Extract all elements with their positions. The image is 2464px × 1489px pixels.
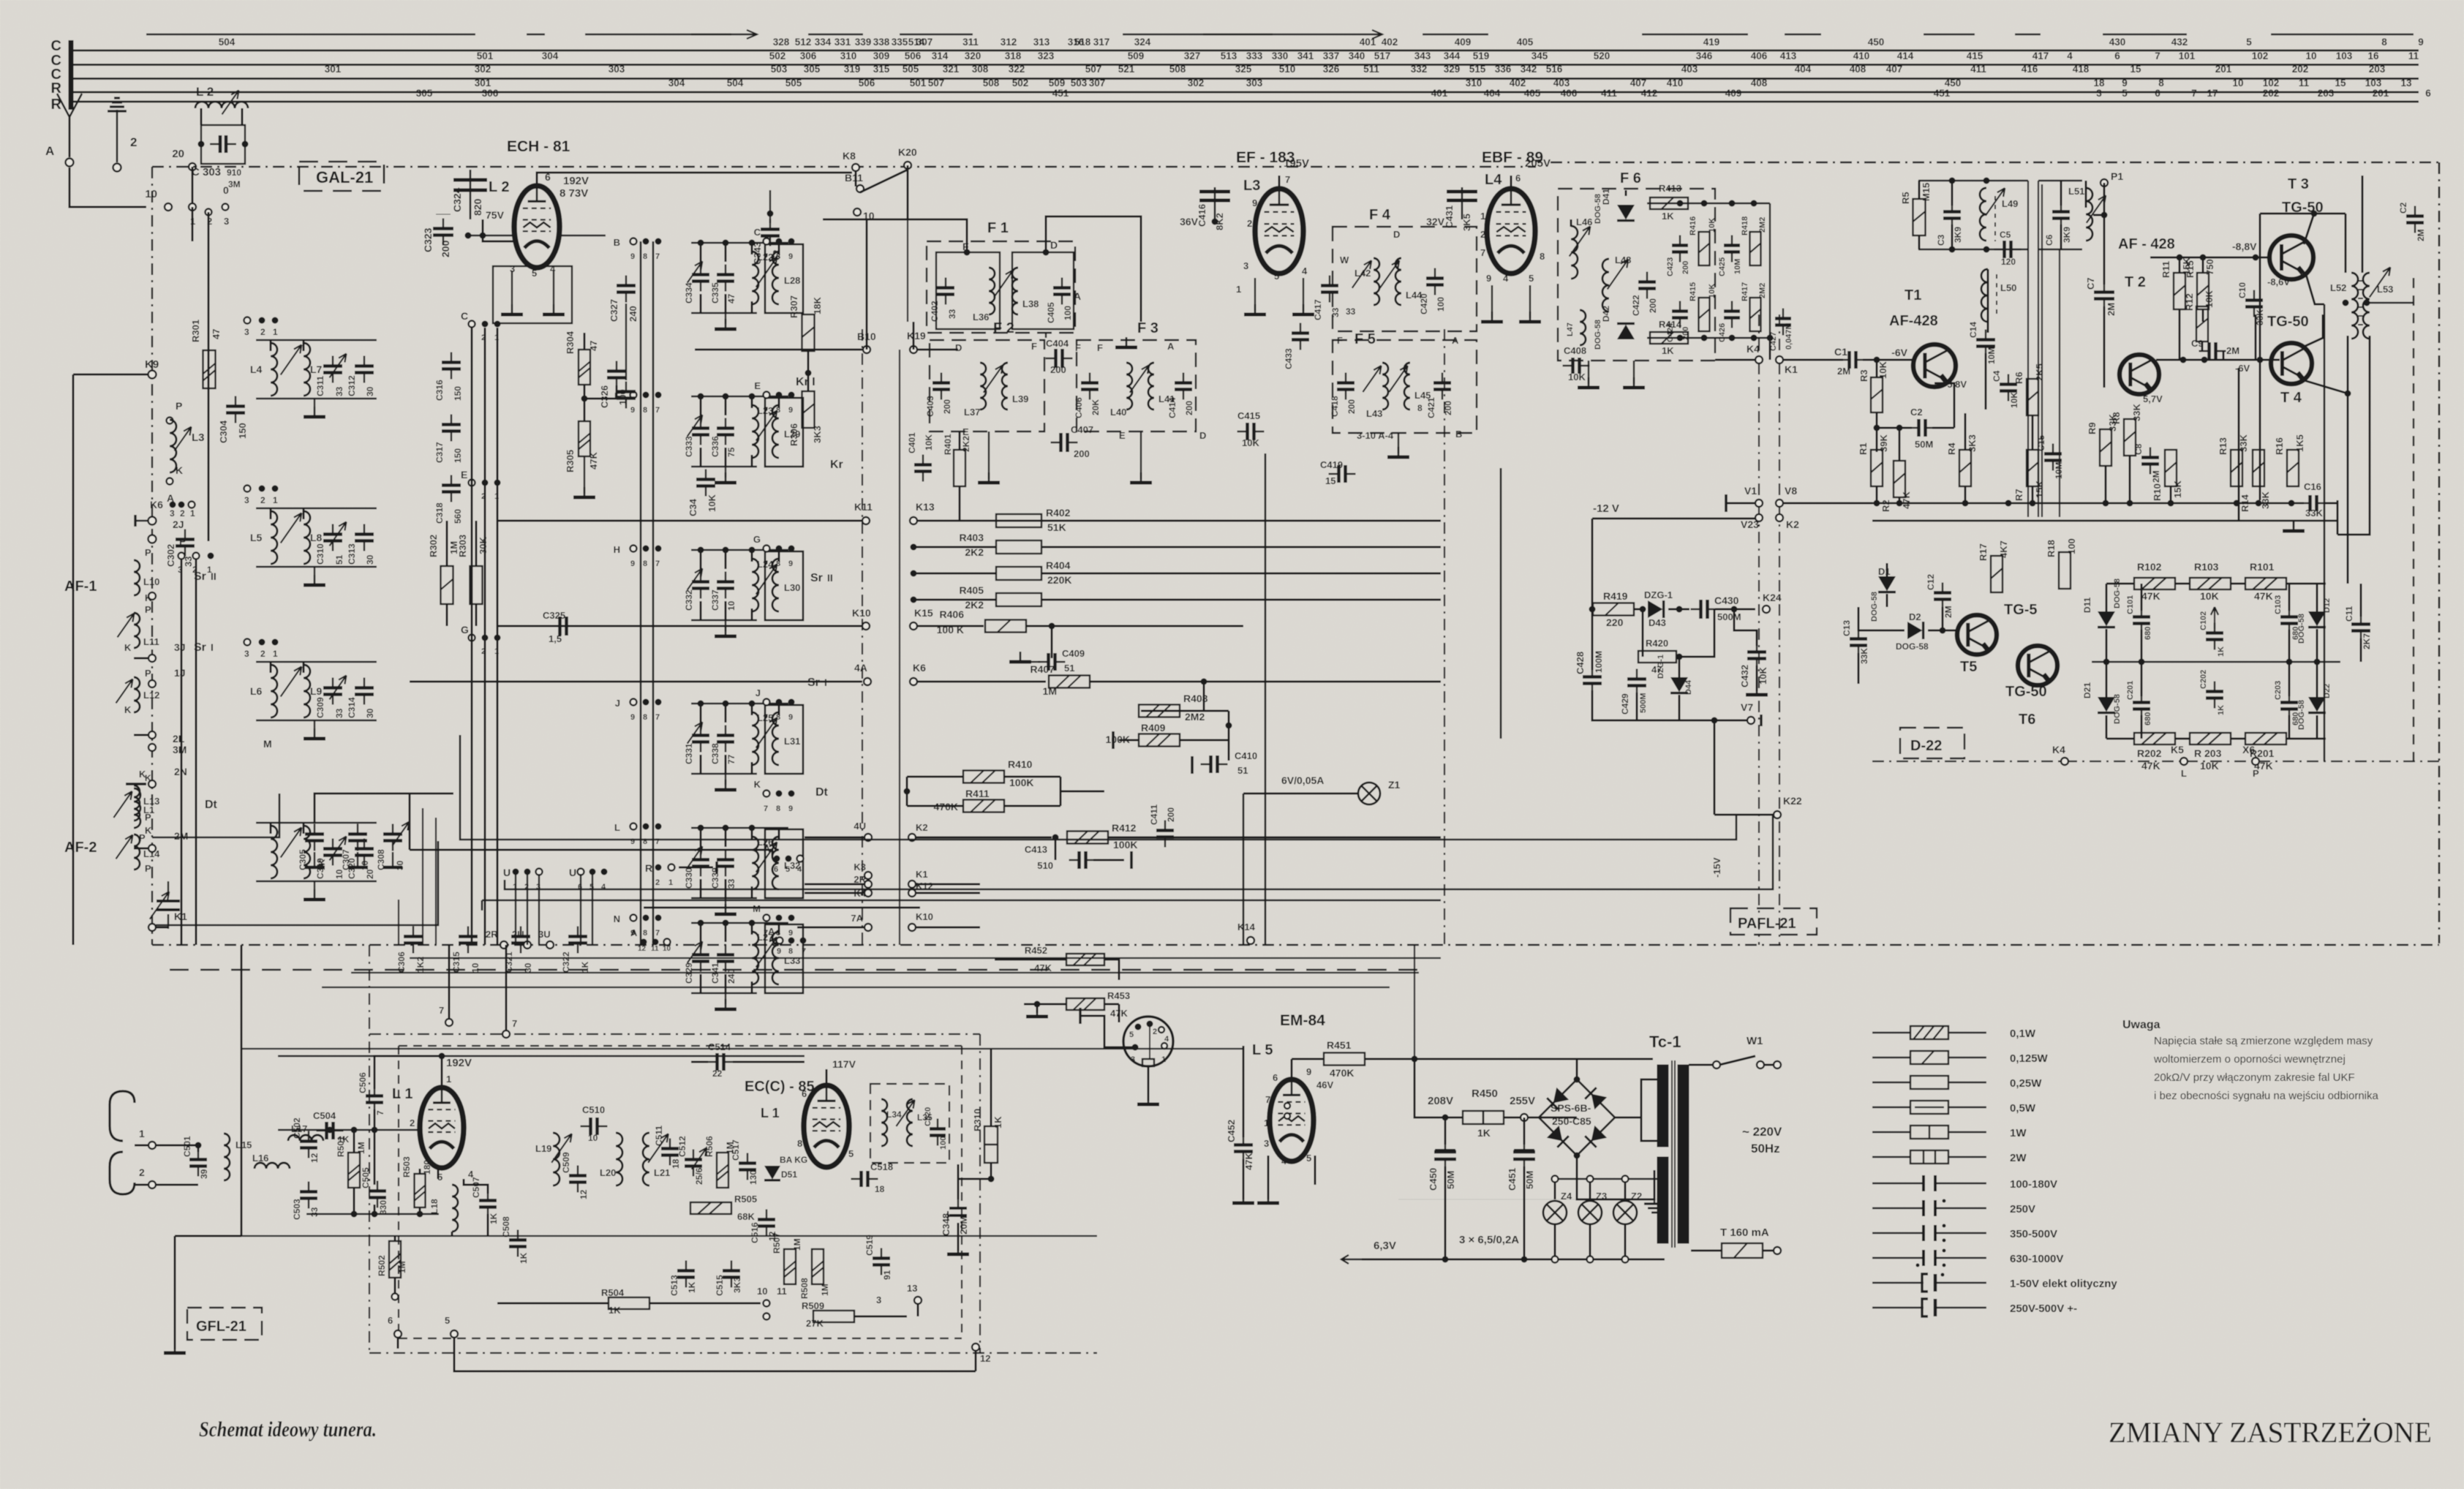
svg-text:47: 47 [588, 341, 599, 351]
T4 resistors R13 R14 R16 C16 [2218, 434, 2305, 512]
vertical dash-dot boundary x1975 [1444, 329, 1445, 945]
svg-text:Napięcia stałe są zmierzone w: Napięcia stałe są zmierzone względem mas… [2154, 1035, 2373, 1047]
svg-text:C506: C506 [358, 1072, 368, 1093]
svg-text:8: 8 [776, 804, 780, 813]
svg-text:33K: 33K [1859, 648, 1869, 664]
svg-text:C408: C408 [1564, 345, 1586, 356]
svg-text:P: P [145, 547, 151, 558]
svg-text:200: 200 [1184, 401, 1194, 415]
svg-text:344: 344 [1444, 50, 1461, 61]
svg-text:L38: L38 [1022, 298, 1039, 309]
svg-text:9: 9 [1486, 273, 1491, 284]
svg-text:~ 220V: ~ 220V [1742, 1125, 1782, 1139]
svg-text:102: 102 [2252, 50, 2269, 61]
svg-text:327: 327 [1184, 50, 1201, 61]
svg-text:D43: D43 [1649, 617, 1666, 628]
svg-text:310: 310 [1466, 78, 1482, 88]
svg-text:9: 9 [788, 559, 793, 568]
svg-text:P: P [145, 863, 151, 874]
svg-text:403: 403 [1553, 78, 1570, 88]
svg-text:3K3: 3K3 [732, 1277, 742, 1293]
svg-text:2R: 2R [486, 929, 498, 940]
svg-text:450: 450 [1868, 37, 1885, 48]
svg-text:27K: 27K [806, 1318, 824, 1329]
antenna A symbol [45, 94, 82, 167]
svg-text:250-C85: 250-C85 [1552, 1115, 1591, 1127]
svg-text:Dt: Dt [815, 786, 829, 799]
svg-text:2: 2 [180, 508, 185, 519]
svg-text:9: 9 [777, 947, 781, 956]
svg-text:47K: 47K [2254, 590, 2273, 602]
svg-text:C451: C451 [1507, 1168, 1518, 1191]
svg-text:C421: C421 [1426, 397, 1436, 418]
wire switch column left [178, 207, 214, 945]
svg-text:10K: 10K [924, 434, 934, 451]
svg-text:307: 307 [1089, 78, 1106, 88]
svg-text:2W: 2W [2010, 1152, 2027, 1164]
svg-text:C317: C317 [434, 442, 445, 463]
svg-text:1M: 1M [820, 1283, 830, 1296]
svg-text:77: 77 [726, 754, 736, 764]
main 208V rail wire [1091, 935, 1653, 1117]
bus K11 K13 [497, 501, 1441, 524]
svg-text:339: 339 [855, 37, 872, 48]
svg-text:R401: R401 [943, 434, 953, 455]
IF coil cluster L24 L30 caps C332 C337 [684, 547, 803, 637]
svg-text:1M: 1M [1043, 685, 1057, 697]
svg-text:C2: C2 [2398, 202, 2408, 214]
svg-text:301: 301 [325, 64, 342, 75]
svg-text:1K: 1K [687, 1281, 697, 1293]
resistor R12 10K cap C9 2M [2184, 290, 2239, 360]
svg-text:20kΩ/V przy włączonym zakres: 20kΩ/V przy włączonym zakresie fal UKF [2154, 1071, 2355, 1084]
svg-text:C309: C309 [315, 697, 325, 718]
svg-text:R9: R9 [2087, 422, 2098, 434]
screening boundary right edge [2438, 162, 2441, 943]
svg-text:3U: 3U [538, 929, 551, 940]
svg-text:DOG-58: DOG-58 [2297, 700, 2306, 730]
svg-text:47K: 47K [2141, 590, 2160, 602]
svg-text:504: 504 [727, 78, 744, 88]
svg-text:10: 10 [588, 1133, 598, 1143]
header component number labels row 4 [475, 78, 2412, 88]
svg-text:C332: C332 [684, 589, 694, 611]
svg-text:9: 9 [788, 929, 793, 938]
svg-text:9: 9 [1252, 197, 1257, 208]
C13 33K D1 DOG-58 C12 2M D2 [1842, 563, 1957, 684]
svg-text:C6: C6 [2044, 234, 2054, 246]
svg-text:7: 7 [1285, 174, 1290, 185]
svg-text:9: 9 [630, 713, 635, 722]
svg-text:P: P [145, 604, 151, 615]
bridge rectifier SPS-6B-250-C85 [1536, 1059, 1665, 1213]
svg-text:C338: C338 [710, 743, 720, 764]
transistor T1 AF-428 [1783, 287, 1967, 390]
svg-text:100K: 100K [1009, 777, 1033, 788]
svg-text:6: 6 [802, 1088, 807, 1099]
tube EBF-89 [1480, 157, 1551, 322]
svg-text:0,5W: 0,5W [2010, 1102, 2036, 1115]
svg-text:R102: R102 [2137, 561, 2162, 573]
svg-text:C514: C514 [708, 1041, 731, 1052]
svg-text:50M: 50M [1915, 439, 1933, 450]
resistor R502 1M [377, 1236, 407, 1300]
svg-text:342: 342 [1521, 64, 1537, 75]
svg-text:519: 519 [1473, 50, 1490, 61]
svg-text:U: U [503, 867, 510, 878]
IF coil cluster L23 L29 caps C333 C336 [684, 393, 803, 483]
svg-text:TG-50: TG-50 [2267, 314, 2309, 330]
svg-text:1K: 1K [489, 1213, 499, 1224]
IF coil cluster L26 L32 caps C330 C339 [684, 825, 803, 915]
svg-text:500M: 500M [1639, 693, 1648, 713]
svg-text:10K: 10K [1708, 284, 1717, 298]
svg-text:R306: R306 [788, 423, 799, 446]
svg-text:T6: T6 [2019, 712, 2035, 728]
svg-text:329: 329 [1444, 64, 1461, 75]
svg-text:315: 315 [873, 64, 890, 75]
top broken reference line [146, 30, 2414, 39]
wire 75V node [480, 219, 515, 241]
svg-text:192V: 192V [446, 1057, 472, 1069]
svg-text:62: 62 [771, 250, 782, 260]
svg-text:75V: 75V [486, 209, 505, 221]
svg-text:9: 9 [1306, 1066, 1311, 1077]
svg-text:30: 30 [365, 708, 375, 718]
svg-text:DOG-58: DOG-58 [1594, 194, 1602, 224]
svg-text:30: 30 [523, 962, 533, 973]
svg-text:F 4: F 4 [1369, 207, 1391, 223]
svg-text:419: 419 [1703, 37, 1720, 48]
svg-text:2M: 2M [2151, 470, 2161, 483]
svg-text:306: 306 [800, 50, 817, 61]
terminal 2J [148, 519, 184, 543]
svg-text:8: 8 [797, 1138, 802, 1149]
svg-text:201: 201 [2373, 88, 2389, 99]
svg-text:K4: K4 [2052, 744, 2065, 755]
svg-text:350-500V: 350-500V [2010, 1228, 2057, 1240]
svg-text:A: A [45, 144, 54, 158]
resistor R503 180 coil L18 cap C507 [402, 1156, 499, 1235]
svg-text:7: 7 [802, 947, 806, 956]
svg-text:255V: 255V [1510, 1095, 1535, 1107]
svg-text:R405: R405 [960, 584, 984, 596]
svg-text:3: 3 [1264, 1138, 1269, 1149]
cap C519 91 [864, 1234, 892, 1280]
svg-text:9: 9 [788, 804, 793, 813]
svg-text:A: A [1452, 335, 1459, 346]
svg-text:5: 5 [1529, 273, 1534, 284]
transistor T5 TG-5 [1957, 602, 2038, 675]
svg-text:10: 10 [726, 600, 736, 611]
long vertical interconnect wires right block [2028, 181, 2060, 517]
switch contact rows right of mid clusters 7 8 9 [753, 227, 794, 938]
svg-text:7: 7 [512, 1018, 517, 1029]
svg-text:334: 334 [815, 37, 832, 48]
svg-text:1K: 1K [580, 961, 590, 973]
resistor R413 1K [1650, 183, 1688, 222]
vertical dash-dot boundary x2405 x2433 double [1759, 314, 1779, 945]
svg-text:BA KG: BA KG [780, 1155, 807, 1165]
svg-text:10: 10 [2232, 78, 2243, 88]
svg-text:8: 8 [643, 252, 647, 261]
svg-text:R302: R302 [428, 535, 439, 557]
svg-text:432: 432 [2171, 37, 2188, 48]
svg-text:C417: C417 [1313, 299, 1323, 320]
svg-text:R: R [645, 862, 652, 874]
svg-text:DOG-58: DOG-58 [2297, 614, 2306, 644]
FM dipole antenna input [110, 1091, 198, 1194]
terminal 3J wire [134, 641, 186, 662]
svg-text:2U: 2U [512, 929, 524, 940]
svg-text:205V: 205V [1525, 157, 1551, 170]
svg-text:D1: D1 [1878, 566, 1891, 577]
svg-text:C509: C509 [561, 1152, 571, 1173]
screening boundary dash-dot top right section [1551, 162, 2439, 163]
svg-text:K6: K6 [913, 662, 926, 674]
svg-text:7: 7 [2191, 88, 2197, 99]
svg-text:518: 518 [1074, 37, 1091, 48]
header component number labels row 5 [416, 88, 2432, 99]
filter F5 box with L43 L45 C418 C421 [1330, 331, 1477, 457]
svg-text:6,3V: 6,3V [1374, 1240, 1396, 1252]
svg-text:306: 306 [482, 88, 499, 99]
svg-text:D42: D42 [1601, 306, 1611, 322]
svg-text:450: 450 [1945, 78, 1962, 88]
capacitor C413 510 [1025, 837, 1131, 871]
svg-text:C: C [51, 38, 61, 54]
svg-text:2K2: 2K2 [961, 436, 971, 452]
capacitor C323 200 [422, 214, 453, 257]
svg-text:R16: R16 [2274, 437, 2285, 455]
wire antenna to switch [69, 167, 146, 207]
svg-text:12: 12 [579, 1189, 589, 1199]
svg-text:C336: C336 [710, 436, 720, 457]
svg-text:L53: L53 [2377, 284, 2393, 295]
svg-text:1: 1 [273, 495, 278, 505]
capacitor C432 10K [1734, 609, 1768, 695]
svg-text:321: 321 [943, 64, 960, 75]
svg-text:Schemat ideowy tunera.: Schemat ideowy tunera. [199, 1417, 377, 1441]
svg-text:415: 415 [1967, 50, 1983, 61]
svg-text:240: 240 [628, 306, 638, 322]
svg-text:R503: R503 [402, 1156, 412, 1177]
svg-text:502: 502 [1012, 78, 1029, 88]
svg-text:12: 12 [638, 945, 647, 953]
svg-text:1: 1 [190, 508, 195, 519]
svg-text:50Hz: 50Hz [1751, 1142, 1780, 1156]
svg-text:200: 200 [1074, 448, 1090, 459]
svg-text:10M: 10M [2054, 462, 2064, 479]
svg-text:36V: 36V [1180, 216, 1199, 227]
svg-text:30: 30 [365, 554, 375, 565]
tube EF-183 [1236, 157, 1314, 314]
svg-text:301: 301 [475, 78, 491, 88]
svg-text:C323: C323 [422, 227, 434, 252]
svg-text:341: 341 [1297, 50, 1314, 61]
svg-text:33K: 33K [2238, 434, 2249, 452]
svg-text:47K: 47K [1901, 491, 1912, 509]
svg-text:6: 6 [2425, 88, 2431, 99]
svg-text:15: 15 [1325, 475, 1335, 486]
svg-text:L10: L10 [143, 576, 159, 587]
terminal strip bus lines C C C R R [51, 38, 2419, 113]
svg-text:R502: R502 [377, 1255, 387, 1276]
svg-text:P: P [2253, 768, 2259, 779]
svg-text:39: 39 [199, 1169, 209, 1179]
svg-text:405: 405 [1524, 88, 1541, 99]
svg-text:C313: C313 [347, 543, 357, 565]
svg-text:R420: R420 [1646, 638, 1668, 649]
svg-text:9: 9 [2122, 78, 2128, 88]
lattice caps C102 C202 middle [2199, 607, 2226, 715]
terminal V23 K2 and -12V rail [1592, 502, 1799, 670]
svg-text:2M2: 2M2 [1185, 711, 1205, 723]
svg-text:D-22: D-22 [1910, 738, 1942, 754]
svg-text:C428: C428 [1575, 652, 1586, 674]
svg-text:-8,6V: -8,6V [2267, 276, 2290, 287]
svg-text:C513: C513 [669, 1275, 679, 1296]
svg-text:E: E [754, 380, 761, 391]
svg-text:C7: C7 [2085, 277, 2096, 290]
svg-text:K1: K1 [916, 869, 928, 880]
terminal K6 ground [135, 499, 163, 527]
svg-text:502: 502 [769, 50, 786, 61]
svg-text:311: 311 [962, 37, 979, 48]
svg-text:10: 10 [663, 945, 671, 953]
terminal row A 9 8 7 [768, 926, 807, 956]
caps C425 C426 resistors R417 R418 [1718, 216, 1793, 351]
svg-text:333: 333 [1246, 50, 1263, 61]
svg-text:U: U [569, 867, 576, 878]
svg-text:10K: 10K [2009, 392, 2019, 408]
svg-text:C402: C402 [930, 301, 940, 322]
svg-text:-8,8V: -8,8V [2232, 241, 2257, 252]
svg-text:2: 2 [260, 327, 265, 337]
label TG-50 T4 [2267, 314, 2309, 406]
svg-text:R450: R450 [1472, 1087, 1498, 1100]
svg-text:P: P [176, 400, 182, 412]
svg-text:C405: C405 [1046, 302, 1056, 323]
svg-text:401: 401 [1360, 37, 1376, 48]
svg-text:304: 304 [542, 50, 559, 61]
GAL-21 label box [299, 162, 384, 191]
svg-text:5: 5 [1274, 271, 1279, 282]
svg-text:R7: R7 [2013, 489, 2024, 501]
svg-text:340: 340 [1349, 50, 1365, 61]
terminal row U 1 2 3 and U 6 5 4 [503, 862, 717, 891]
svg-text:310: 310 [840, 50, 857, 61]
svg-text:8: 8 [643, 559, 647, 568]
svg-text:103: 103 [2336, 50, 2353, 61]
capacitor C302 33 [165, 529, 195, 568]
svg-text:4: 4 [797, 865, 802, 874]
svg-text:Dt: Dt [205, 799, 218, 811]
svg-text:4: 4 [1281, 1156, 1287, 1166]
svg-text:15K: 15K [2034, 480, 2045, 498]
svg-text:317: 317 [1093, 37, 1110, 48]
legend resistor 2W [1872, 1150, 2027, 1164]
svg-text:7: 7 [1265, 1094, 1270, 1105]
svg-text:AF-428: AF-428 [1889, 313, 1938, 329]
svg-text:5,7V: 5,7V [2143, 393, 2163, 404]
svg-text:E: E [962, 426, 969, 437]
svg-text:L 5: L 5 [1252, 1042, 1273, 1058]
svg-text:0,25W: 0,25W [2010, 1077, 2042, 1090]
svg-text:18K: 18K [812, 297, 823, 314]
svg-text:P: P [179, 535, 186, 547]
filter F6 box [1558, 170, 1715, 361]
svg-text:L49: L49 [2002, 198, 2018, 209]
svg-text:R453: R453 [1107, 990, 1130, 1001]
svg-text:1K: 1K [1662, 211, 1674, 222]
lattice diodes D11 D12 caps C101 C103 [2082, 578, 2332, 644]
svg-text:302: 302 [475, 64, 491, 75]
svg-text:K: K [124, 704, 132, 715]
svg-text:PAFL-21: PAFL-21 [1738, 916, 1796, 932]
svg-text:1: 1 [273, 649, 278, 659]
resistors R11 15K R15 750 [2160, 257, 2215, 360]
svg-text:12: 12 [309, 1153, 320, 1163]
svg-text:TG-50: TG-50 [2005, 684, 2047, 700]
svg-text:1,5: 1,5 [549, 633, 562, 644]
svg-text:R452: R452 [1025, 945, 1047, 956]
svg-text:33K: 33K [2305, 508, 2323, 519]
svg-text:15K: 15K [2172, 480, 2183, 498]
svg-text:GFL-21: GFL-21 [196, 1319, 246, 1335]
svg-text:C10: C10 [2237, 282, 2248, 298]
svg-text:1: 1 [1161, 1055, 1166, 1064]
lamp Z1 6V/005A [1243, 774, 1401, 945]
resistor R452 47K [995, 945, 1119, 980]
svg-text:C304: C304 [218, 420, 229, 443]
svg-text:R505: R505 [734, 1194, 757, 1205]
svg-text:9: 9 [630, 559, 635, 568]
svg-text:320: 320 [965, 50, 982, 61]
svg-text:K5: K5 [2171, 744, 2184, 755]
ratio detector lattice R102 R103 R101 top row [2106, 561, 2326, 602]
svg-text:1W: 1W [2010, 1127, 2027, 1139]
svg-text:4U: 4U [854, 821, 866, 832]
svg-text:10: 10 [470, 962, 481, 973]
svg-text:Uwaga: Uwaga [2122, 1019, 2160, 1031]
svg-text:C510: C510 [582, 1104, 605, 1115]
svg-text:K10: K10 [916, 911, 933, 922]
svg-text:100: 100 [2066, 538, 2077, 554]
svg-text:F 3: F 3 [1137, 320, 1158, 336]
svg-text:33: 33 [1346, 306, 1356, 317]
svg-text:DOG-58: DOG-58 [2113, 694, 2122, 724]
svg-text:K: K [124, 642, 132, 653]
filter F3 box with L40 L41 C406 C414 [1074, 320, 1206, 441]
coil pair L6 L9 with C309 C314 [244, 639, 377, 739]
svg-text:1K5: 1K5 [2294, 434, 2305, 452]
svg-text:513: 513 [1221, 50, 1237, 61]
svg-text:410: 410 [1853, 50, 1870, 61]
svg-text:C334: C334 [684, 282, 694, 304]
svg-text:4: 4 [2067, 50, 2073, 61]
svg-text:R8: R8 [2111, 412, 2122, 424]
svg-text:R402: R402 [1046, 507, 1071, 519]
svg-text:330: 330 [378, 1200, 388, 1215]
transistor T3 TG-50 [2194, 176, 2346, 761]
svg-text:1: 1 [1480, 211, 1485, 222]
svg-text:10K: 10K [1877, 361, 1888, 379]
svg-text:8: 8 [1417, 403, 1423, 413]
terminals 10 11 resistor R509 27K [757, 1286, 907, 1329]
svg-text:F: F [1031, 341, 1037, 352]
svg-text:16: 16 [2367, 50, 2379, 61]
